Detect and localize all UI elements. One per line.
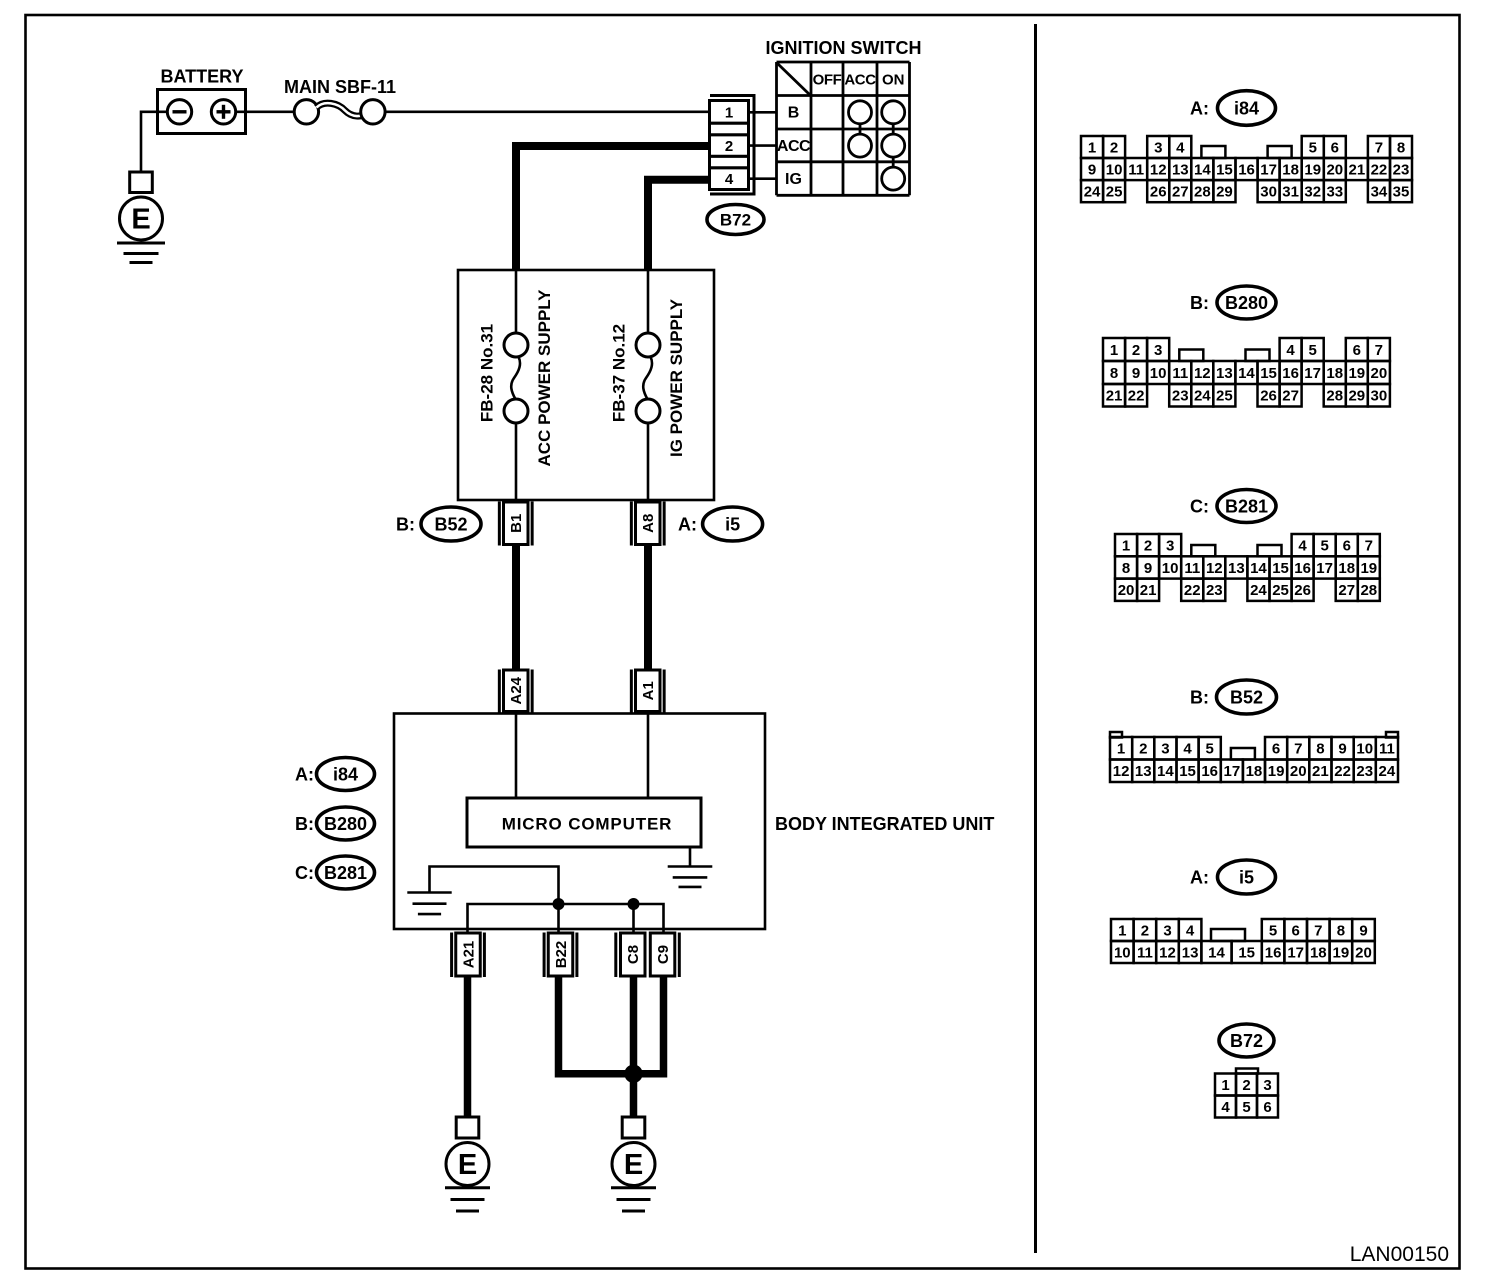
svg-text:21: 21	[1106, 388, 1123, 405]
svg-text:BODY INTEGRATED UNIT: BODY INTEGRATED UNIT	[775, 814, 994, 834]
svg-text:20: 20	[1290, 763, 1307, 780]
svg-text:4: 4	[1286, 342, 1295, 359]
svg-text:10: 10	[1114, 944, 1131, 961]
thick wire B22 to junction	[559, 976, 631, 1074]
connector terminals C8 C9	[614, 933, 681, 978]
svg-text:6: 6	[1331, 139, 1339, 156]
svg-text:2: 2	[1110, 139, 1118, 156]
panel divider	[1034, 24, 1037, 1253]
internal ground bus	[468, 904, 664, 933]
svg-text:13: 13	[1182, 944, 1199, 961]
svg-text:35: 35	[1393, 183, 1410, 200]
connector terminal B1	[498, 502, 534, 546]
svg-text:IG POWER SUPPLY: IG POWER SUPPLY	[667, 298, 686, 457]
svg-text:20: 20	[1371, 365, 1388, 382]
svg-text:22: 22	[1371, 161, 1388, 178]
svg-text:11: 11	[1379, 741, 1395, 758]
svg-text:IGNITION SWITCH: IGNITION SWITCH	[766, 38, 922, 58]
svg-text:18: 18	[1326, 365, 1343, 382]
svg-text:30: 30	[1260, 183, 1277, 200]
svg-text:B281: B281	[1225, 496, 1268, 516]
label A: i5 (pinout)	[1190, 860, 1276, 894]
svg-text:MICRO COMPUTER: MICRO COMPUTER	[502, 815, 673, 834]
wire A24 to micro computer	[515, 714, 518, 799]
svg-text:1: 1	[1088, 139, 1096, 156]
svg-text:FB-28 No.31: FB-28 No.31	[477, 324, 496, 422]
svg-text:A:: A:	[1190, 867, 1209, 887]
svg-text:2: 2	[1144, 537, 1152, 554]
svg-text:6: 6	[1263, 1099, 1271, 1116]
svg-text:B72: B72	[720, 211, 751, 230]
svg-text:B22: B22	[553, 941, 570, 969]
svg-text:B1: B1	[508, 514, 525, 533]
svg-text:i84: i84	[1234, 98, 1259, 118]
svg-text:19: 19	[1304, 161, 1321, 178]
thick wire C8 to ground	[630, 976, 638, 1118]
svg-text:B:: B:	[1190, 293, 1209, 313]
svg-text:B52: B52	[1230, 687, 1263, 707]
svg-text:19: 19	[1348, 365, 1365, 382]
svg-text:1: 1	[725, 105, 733, 122]
svg-text:ACC: ACC	[844, 71, 876, 88]
wire fusible link to connector B72 pin 1	[385, 111, 709, 114]
svg-text:15: 15	[1179, 763, 1196, 780]
ground (body unit internal left)	[407, 893, 451, 915]
ignition switch	[766, 38, 922, 195]
junction (C8 bus)	[628, 898, 640, 910]
svg-text:33: 33	[1326, 183, 1343, 200]
svg-text:23: 23	[1393, 161, 1410, 178]
svg-text:B:: B:	[1190, 687, 1209, 707]
wire B72 pin4 to switch IG row	[749, 177, 777, 180]
svg-text:23: 23	[1206, 582, 1223, 599]
svg-text:3: 3	[1263, 1077, 1271, 1094]
thick wire A8 to A1	[644, 545, 652, 671]
svg-text:14: 14	[1157, 763, 1174, 780]
svg-text:ON: ON	[882, 71, 905, 88]
svg-text:24: 24	[1250, 582, 1267, 599]
svg-text:C9: C9	[655, 945, 672, 964]
svg-text:4: 4	[1221, 1099, 1230, 1116]
svg-text:B280: B280	[1225, 293, 1268, 313]
svg-text:A:: A:	[678, 514, 697, 534]
junction (ground wire)	[624, 1065, 642, 1083]
svg-text:C:: C:	[295, 863, 314, 883]
connector terminal A24	[498, 670, 534, 713]
svg-text:8: 8	[1337, 922, 1345, 939]
svg-text:9: 9	[1338, 741, 1346, 758]
svg-text:26: 26	[1260, 388, 1277, 405]
svg-text:3: 3	[1154, 139, 1162, 156]
svg-text:7: 7	[1365, 537, 1373, 554]
svg-text:16: 16	[1294, 560, 1311, 577]
label B72 connector	[707, 205, 764, 235]
svg-text:4: 4	[1176, 139, 1185, 156]
svg-text:17: 17	[1316, 560, 1333, 577]
svg-text:17: 17	[1260, 161, 1277, 178]
svg-text:2: 2	[1242, 1077, 1250, 1094]
svg-text:17: 17	[1224, 763, 1241, 780]
svg-text:12: 12	[1194, 365, 1211, 382]
svg-text:C8: C8	[625, 945, 642, 964]
connector B72 (ignition switch side)	[710, 96, 755, 195]
svg-text:32: 32	[1304, 183, 1321, 200]
svg-text:9: 9	[1088, 161, 1096, 178]
svg-text:2: 2	[1139, 741, 1147, 758]
svg-text:24: 24	[1084, 183, 1101, 200]
svg-text:11: 11	[1172, 365, 1188, 382]
svg-text:23: 23	[1356, 763, 1373, 780]
svg-text:12: 12	[1159, 944, 1176, 961]
svg-text:18: 18	[1338, 560, 1355, 577]
svg-text:3: 3	[1166, 537, 1174, 554]
svg-text:A21: A21	[460, 941, 477, 969]
svg-text:14: 14	[1250, 560, 1267, 577]
svg-text:7: 7	[1294, 741, 1302, 758]
fuse FB-28 No.31	[504, 270, 528, 500]
label B: B280 (pinout)	[1190, 286, 1276, 319]
svg-text:28: 28	[1360, 582, 1377, 599]
body integrated unit box	[394, 714, 765, 930]
svg-text:E: E	[131, 204, 150, 236]
svg-text:FB-37 No.12: FB-37 No.12	[609, 324, 628, 422]
svg-text:29: 29	[1216, 183, 1233, 200]
label A: i84 (pinout)	[1190, 91, 1276, 126]
svg-text:A8: A8	[640, 514, 657, 533]
svg-text:IG: IG	[785, 171, 802, 188]
pinout grid B52	[1110, 732, 1398, 782]
svg-text:17: 17	[1287, 944, 1304, 961]
svg-text:21: 21	[1349, 161, 1366, 178]
svg-text:29: 29	[1348, 388, 1365, 405]
svg-text:12: 12	[1150, 161, 1167, 178]
svg-text:BATTERY: BATTERY	[161, 67, 244, 87]
ground E (battery)	[117, 172, 165, 263]
pinout grid B280	[1103, 338, 1390, 407]
junction (B22 bus)	[553, 898, 565, 910]
svg-text:A1: A1	[640, 681, 657, 700]
svg-text:27: 27	[1172, 183, 1189, 200]
svg-text:28: 28	[1326, 388, 1343, 405]
svg-text:7: 7	[1375, 139, 1383, 156]
svg-text:27: 27	[1338, 582, 1355, 599]
svg-text:20: 20	[1326, 161, 1343, 178]
svg-text:11: 11	[1184, 560, 1200, 577]
label A: i5	[678, 507, 763, 541]
svg-text:9: 9	[1144, 560, 1152, 577]
svg-text:7: 7	[1375, 342, 1383, 359]
svg-text:3: 3	[1154, 342, 1162, 359]
svg-text:i5: i5	[1239, 867, 1254, 887]
label C: B281	[295, 856, 375, 889]
stem to C8	[632, 904, 635, 933]
svg-text:5: 5	[1269, 922, 1277, 939]
svg-text:30: 30	[1371, 388, 1388, 405]
battery	[158, 67, 246, 134]
svg-text:B280: B280	[324, 814, 367, 834]
svg-text:1: 1	[1221, 1077, 1229, 1094]
label A: i84	[295, 758, 375, 791]
svg-text:B72: B72	[1230, 1031, 1263, 1051]
label B: B52 (pinout)	[1190, 680, 1277, 714]
svg-text:B:: B:	[295, 814, 314, 834]
svg-text:9: 9	[1359, 922, 1367, 939]
svg-text:6: 6	[1272, 741, 1280, 758]
svg-text:19: 19	[1268, 763, 1285, 780]
svg-text:2: 2	[1132, 342, 1140, 359]
svg-text:10: 10	[1162, 560, 1179, 577]
svg-text:22: 22	[1128, 388, 1145, 405]
svg-text:18: 18	[1246, 763, 1263, 780]
svg-text:3: 3	[1161, 741, 1169, 758]
svg-text:21: 21	[1140, 582, 1157, 599]
label B: B52	[396, 507, 481, 541]
connector terminal A21	[450, 933, 486, 978]
fusible link MAIN SBF-11	[236, 77, 396, 124]
wire battery negative to ground	[141, 112, 167, 173]
svg-text:26: 26	[1150, 183, 1167, 200]
svg-text:5: 5	[1308, 342, 1316, 359]
svg-text:18: 18	[1282, 161, 1299, 178]
internal ground wire (left)	[430, 867, 559, 905]
ground E (B22/C8/C9)	[611, 1117, 656, 1211]
ground (micro computer)	[668, 847, 713, 887]
svg-text:22: 22	[1334, 763, 1351, 780]
svg-text:22: 22	[1184, 582, 1201, 599]
thick wire C9 to junction	[637, 976, 664, 1074]
label B72 (pinout)	[1219, 1024, 1274, 1057]
svg-text:6: 6	[1353, 342, 1361, 359]
svg-text:25: 25	[1216, 388, 1233, 405]
svg-text:10: 10	[1150, 365, 1167, 382]
svg-text:1: 1	[1122, 537, 1130, 554]
svg-text:15: 15	[1238, 944, 1255, 961]
svg-text:19: 19	[1360, 560, 1377, 577]
svg-text:34: 34	[1371, 183, 1388, 200]
svg-text:19: 19	[1333, 944, 1350, 961]
svg-text:9: 9	[1132, 365, 1140, 382]
svg-text:2: 2	[1141, 922, 1149, 939]
pinout grid B72	[1215, 1069, 1278, 1118]
svg-text:31: 31	[1282, 183, 1299, 200]
svg-text:8: 8	[1110, 365, 1118, 382]
stem to B22	[557, 904, 560, 933]
pinout grid i84	[1081, 136, 1412, 202]
svg-text:15: 15	[1272, 560, 1289, 577]
svg-text:ACC: ACC	[777, 138, 811, 155]
svg-text:1: 1	[1110, 342, 1118, 359]
svg-text:B281: B281	[324, 863, 367, 883]
svg-text:24: 24	[1194, 388, 1211, 405]
thick wire A21 to ground	[464, 976, 472, 1118]
svg-text:8: 8	[1397, 139, 1405, 156]
svg-text:4: 4	[1186, 922, 1195, 939]
svg-text:12: 12	[1206, 560, 1223, 577]
svg-text:3: 3	[1163, 922, 1171, 939]
svg-text:14: 14	[1208, 944, 1225, 961]
svg-text:20: 20	[1355, 944, 1372, 961]
svg-text:8: 8	[1316, 741, 1324, 758]
connector terminal B22	[543, 933, 579, 978]
svg-text:B52: B52	[434, 514, 467, 534]
svg-text:7: 7	[1314, 922, 1322, 939]
svg-text:13: 13	[1172, 161, 1189, 178]
wire B72 pin2 to switch ACC row	[749, 144, 777, 147]
svg-text:14: 14	[1238, 365, 1255, 382]
svg-text:5: 5	[1206, 741, 1214, 758]
svg-text:5: 5	[1320, 537, 1328, 554]
svg-text:16: 16	[1201, 763, 1218, 780]
svg-text:11: 11	[1128, 161, 1144, 178]
svg-text:4: 4	[1183, 741, 1192, 758]
svg-text:27: 27	[1282, 388, 1299, 405]
svg-text:24: 24	[1379, 763, 1396, 780]
svg-text:ACC POWER SUPPLY: ACC POWER SUPPLY	[535, 289, 554, 467]
fuse FB-37 No.12	[636, 270, 660, 500]
svg-text:13: 13	[1216, 365, 1233, 382]
svg-text:E: E	[624, 1149, 643, 1181]
wire B72 pin1 to switch B row	[749, 111, 777, 114]
svg-text:16: 16	[1282, 365, 1299, 382]
svg-text:25: 25	[1106, 183, 1123, 200]
svg-text:10: 10	[1106, 161, 1123, 178]
ground E (A21)	[445, 1117, 490, 1211]
svg-text:OFF: OFF	[813, 71, 842, 88]
svg-text:i5: i5	[725, 514, 740, 534]
svg-text:10: 10	[1356, 741, 1373, 758]
svg-text:8: 8	[1122, 560, 1130, 577]
svg-text:4: 4	[725, 171, 734, 188]
svg-text:25: 25	[1272, 582, 1289, 599]
fuse box	[458, 270, 714, 500]
svg-text:5: 5	[1309, 139, 1317, 156]
svg-text:13: 13	[1228, 560, 1245, 577]
svg-text:12: 12	[1113, 763, 1130, 780]
thick wire B72 pin2 to ACC fuse	[516, 146, 710, 270]
svg-text:LAN00150: LAN00150	[1350, 1243, 1449, 1266]
svg-text:23: 23	[1172, 388, 1189, 405]
svg-text:i84: i84	[333, 764, 358, 784]
thick wire B1 to A24	[512, 545, 520, 671]
svg-text:2: 2	[725, 138, 733, 155]
svg-text:4: 4	[1298, 537, 1307, 554]
svg-text:16: 16	[1238, 161, 1255, 178]
svg-text:18: 18	[1310, 944, 1327, 961]
svg-text:B: B	[788, 105, 800, 122]
svg-text:15: 15	[1260, 365, 1277, 382]
svg-text:A:: A:	[1190, 98, 1209, 118]
pinout grid B281	[1115, 534, 1380, 601]
connector terminal A8	[630, 502, 666, 546]
svg-text:17: 17	[1304, 365, 1321, 382]
svg-text:B:: B:	[396, 514, 415, 534]
svg-text:6: 6	[1343, 537, 1351, 554]
svg-text:E: E	[458, 1149, 477, 1181]
svg-text:16: 16	[1265, 944, 1282, 961]
svg-text:1: 1	[1118, 922, 1126, 939]
label C: B281 (pinout)	[1190, 490, 1276, 523]
thick wire B72 pin4 to IG fuse	[648, 180, 710, 270]
svg-text:1: 1	[1117, 741, 1125, 758]
svg-text:11: 11	[1137, 944, 1153, 961]
svg-text:15: 15	[1216, 161, 1233, 178]
connector terminal A1	[630, 670, 666, 713]
svg-text:A:: A:	[295, 764, 314, 784]
wire A1 to micro computer	[647, 714, 650, 799]
label B: B280	[295, 807, 375, 840]
micro computer	[467, 798, 701, 847]
svg-text:14: 14	[1194, 161, 1211, 178]
svg-text:13: 13	[1135, 763, 1152, 780]
svg-text:6: 6	[1292, 922, 1300, 939]
svg-text:A24: A24	[508, 676, 525, 704]
svg-text:MAIN SBF-11: MAIN SBF-11	[284, 77, 396, 97]
svg-text:26: 26	[1294, 582, 1311, 599]
svg-text:21: 21	[1312, 763, 1329, 780]
svg-text:28: 28	[1194, 183, 1211, 200]
pinout grid i5	[1111, 919, 1375, 963]
svg-text:20: 20	[1118, 582, 1135, 599]
svg-text:5: 5	[1242, 1099, 1250, 1116]
svg-text:C:: C:	[1190, 496, 1209, 516]
